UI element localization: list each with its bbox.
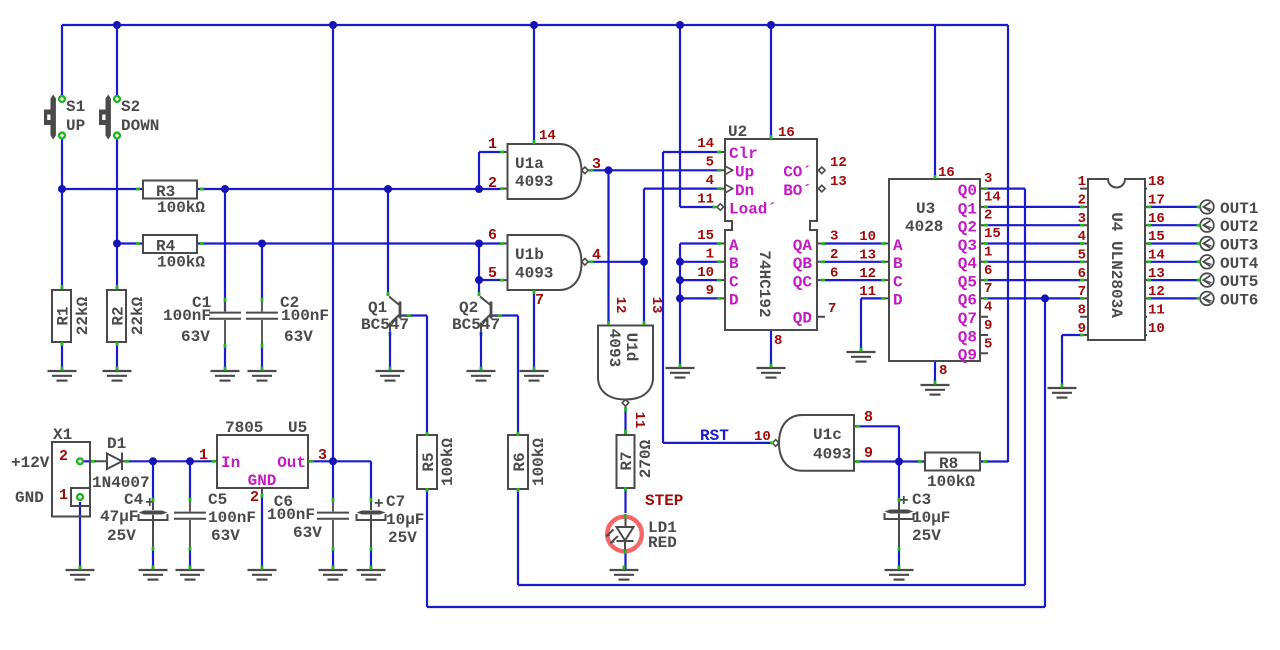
svg-text:22kΩ: 22kΩ [129,296,147,335]
svg-text:4093: 4093 [515,173,553,191]
svg-text:OUT1: OUT1 [1220,200,1258,218]
svg-text:RED: RED [648,534,677,552]
ground C4 [139,570,168,580]
ground C5 [176,570,205,580]
svg-text:5: 5 [488,265,497,282]
svg-text:270Ω: 270Ω [637,439,655,478]
svg-text:Clr: Clr [729,145,758,163]
svg-text:Q2: Q2 [958,219,977,237]
svg-text:2: 2 [984,208,992,224]
U2 pin names CO BO [783,164,812,201]
svg-text:+: + [374,495,384,513]
wire: S2 to R4/R2 node [117,139,143,290]
junction dots ABCD tie [676,258,684,303]
svg-text:R1: R1 [55,306,73,325]
wire: U2 Load stub [680,206,716,208]
svg-text:OUT2: OUT2 [1220,218,1258,236]
junction dot U5 out [329,457,337,465]
svg-text:1: 1 [984,245,992,261]
svg-text:5: 5 [984,337,992,353]
svg-text:OUT6: OUT6 [1220,292,1258,310]
IC U5 7805 regulator [211,435,314,497]
svg-text:D: D [893,292,903,310]
resistor R2 [107,285,126,346]
svg-text:4093: 4093 [515,265,553,283]
svg-text:C3: C3 [912,491,931,509]
svg-text:7: 7 [535,292,544,309]
svg-text:2: 2 [250,489,259,506]
svg-text:R5: R5 [420,452,438,471]
svg-text:16: 16 [778,125,795,141]
wire: U3 pin 8 to ground [934,361,936,385]
svg-text:Up: Up [735,164,754,182]
svg-text:11: 11 [697,192,714,208]
svg-text:18: 18 [1148,174,1165,190]
svg-text:100nF: 100nF [281,307,329,325]
U3 pin numbers [859,165,1001,379]
svg-text:Q3: Q3 [958,237,977,255]
svg-text:U1c: U1c [813,426,842,444]
svg-text:Q5: Q5 [958,274,977,292]
svg-text:Q8: Q8 [958,329,977,347]
svg-text:C7: C7 [386,493,405,511]
svg-text:2: 2 [59,448,68,465]
svg-text:25V: 25V [107,527,136,545]
junction dots input cap node [149,457,194,465]
svg-text:74HC192: 74HC192 [755,250,773,317]
wire: U4 pin 9 to ground [1062,335,1080,388]
capacitor C6 [317,501,349,550]
ground U5 [248,570,277,580]
wire: C4 to ground [152,550,154,570]
svg-text:6: 6 [984,263,992,279]
junction VCC rail dots [113,21,775,29]
svg-text:RST: RST [700,427,729,445]
wire: R2 to ground [116,342,118,371]
ground U2 ABCD [666,368,695,378]
wire: U5 GND pin to ground [261,497,263,570]
svg-text:100nF: 100nF [208,509,256,527]
svg-text:14: 14 [697,136,714,152]
svg-text:U1d: U1d [622,333,640,362]
junction dot Q6 net [1041,294,1049,302]
diode D1 [96,453,129,471]
svg-text:Q1: Q1 [958,201,977,219]
svg-text:QD: QD [793,310,812,328]
svg-text:14: 14 [539,128,556,144]
ground U4 pin9 [1048,388,1077,398]
svg-text:U2: U2 [728,123,747,141]
svg-text:GND: GND [15,489,44,507]
svg-text:Q6: Q6 [958,292,977,310]
svg-text:100kΩ: 100kΩ [530,438,548,486]
svg-text:100nF: 100nF [163,307,211,325]
wire: U2 pin 8 to ground [770,330,772,368]
svg-text:4: 4 [706,173,714,189]
node OUT5 [1200,273,1214,287]
svg-text:Q1: Q1 [368,299,387,317]
svg-text:C: C [729,274,739,292]
wire: U1b output to U2 Dn and U1d pin 13 [592,189,718,326]
svg-text:25V: 25V [388,529,417,547]
svg-text:13: 13 [648,297,664,314]
U1c pin numbers [754,409,873,462]
wire: X1 pin1 to ground [79,502,81,570]
svg-text:11: 11 [1148,303,1165,319]
svg-text:S2: S2 [121,98,140,116]
wire: VCC top rail [62,25,1008,462]
svg-text:4028: 4028 [905,218,943,236]
svg-text:DOWN: DOWN [121,117,159,135]
wire: C6 to ground [332,550,334,570]
svg-text:R2: R2 [110,306,128,325]
svg-text:B: B [893,255,903,273]
wire: Q6 net to U4 pin7 and R5 via bottom rail [401,298,1080,607]
svg-text:10: 10 [697,265,714,281]
svg-text:6: 6 [488,227,497,244]
svg-text:9: 9 [864,445,873,462]
svg-text:QC: QC [793,274,813,292]
U1a pin numbers [488,128,601,192]
svg-text:BO´: BO´ [783,182,812,200]
U2 pin numbers [697,125,847,349]
svg-text:1: 1 [706,247,714,263]
svg-text:3: 3 [318,447,327,464]
svg-text:X1: X1 [53,426,72,444]
ground U3 D input [847,352,876,362]
op-amp U1c NAND gate mirrored [772,415,860,471]
U1b pin numbers [488,227,601,309]
wire: net R3 right / U1a inputs / Q1 collector [197,152,500,311]
svg-text:Load´: Load´ [729,201,777,219]
ground C7 [357,570,386,580]
svg-text:63V: 63V [211,527,240,545]
svg-text:CO´: CO´ [783,164,812,182]
svg-text:OUT4: OUT4 [1220,255,1259,273]
svg-text:100kΩ: 100kΩ [439,438,457,486]
svg-text:BC547: BC547 [361,316,409,334]
ground R1 [48,371,77,381]
svg-text:1: 1 [488,136,497,153]
ground LED [610,570,639,580]
node OUT1 [1200,200,1214,214]
node OUT2 [1200,218,1214,232]
resistor R8 [918,453,987,471]
svg-text:QA: QA [793,237,813,255]
svg-text:100kΩ: 100kΩ [927,473,975,491]
svg-text:Q4: Q4 [958,255,978,273]
svg-text:63V: 63V [181,328,210,346]
svg-text:10: 10 [754,429,771,445]
X1 pin numbers [59,448,68,504]
U2 pin names QA-QD [793,237,813,328]
svg-text:QB: QB [793,255,813,273]
resistor R7 [617,430,635,491]
svg-text:1N4007: 1N4007 [92,474,150,492]
svg-text:11: 11 [859,284,876,300]
junction dots R3 net [58,185,483,193]
svg-text:16: 16 [938,165,955,181]
wire: U1b pin7 to ground [533,290,535,371]
svg-text:4093: 4093 [813,446,851,464]
svg-text:C: C [893,274,903,292]
wire: Q2 emitter to ground [480,332,482,371]
svg-text:13: 13 [859,248,876,264]
U5 pin names [221,454,306,490]
svg-text:+: + [899,492,909,510]
svg-text:7: 7 [828,301,836,317]
svg-text:OUT3: OUT3 [1220,237,1258,255]
ground R2 [103,371,132,381]
wire: U3 D to ground [861,298,881,352]
svg-text:10: 10 [859,229,876,245]
svg-text:U4 ULN2803A: U4 ULN2803A [1107,212,1125,318]
svg-text:22kΩ: 22kΩ [74,296,92,335]
svg-text:10µF: 10µF [386,511,424,529]
ground C1 [211,371,240,381]
svg-text:12: 12 [612,297,628,314]
svg-text:Q9: Q9 [958,347,977,365]
svg-text:8: 8 [939,363,947,379]
wire: C3 to ground [898,550,900,570]
svg-text:63V: 63V [284,328,313,346]
wire: Q1 emitter to ground [389,332,391,371]
wire: U4 outputs to OUT pads [1147,207,1200,299]
svg-text:5: 5 [706,155,714,171]
svg-text:GND: GND [248,472,277,490]
wire: Q1-Q5 nets to U4 inputs [988,207,1080,280]
wire: U2 QA QB QC to U3 A B C [825,244,881,281]
svg-text:7805: 7805 [225,419,263,437]
U3 pin names ABCD [893,237,903,310]
LED LD1 [606,514,642,554]
svg-text:BC547: BC547 [452,316,500,334]
svg-text:1: 1 [199,447,208,464]
svg-text:STEP: STEP [645,492,683,510]
svg-text:2: 2 [488,175,497,192]
node OUT3 [1200,237,1214,251]
svg-text:+: + [145,494,155,512]
wire: U1a output to U2 Up and U1d pin 12 [592,170,718,325]
capacitor C3 electrolytic [885,501,914,550]
wire: RST net U1c out to U2 Clr [663,152,772,443]
wire: U5 Out to VCC vertical and C6 C7 [314,461,371,499]
U4 pin numbers [1078,174,1165,337]
svg-text:C4: C4 [124,491,144,509]
ground C2 [248,371,277,381]
IC U3 4028 decoder [881,179,988,361]
wire: U1c pin8 pin9 R8 C3 node [860,426,1008,499]
wire: U1d output to R7 to LED to ground [624,409,626,570]
ground C3 [885,570,914,580]
op-amp U1a NAND gate [500,144,592,199]
svg-text:+12V: +12V [11,454,50,472]
svg-text:10: 10 [1148,321,1165,337]
svg-text:Q2: Q2 [459,299,478,317]
wire: C5 to ground [189,550,191,570]
wire: C7 to ground [370,550,372,570]
wire: C2 to ground [261,347,263,371]
transistor Q1 [387,292,411,336]
capacitor C4 electrolytic [139,501,168,550]
svg-text:15: 15 [697,228,714,244]
op-amp U1d NAND gate rotated [598,326,653,410]
svg-text:3: 3 [830,229,838,245]
svg-text:6: 6 [830,266,838,282]
svg-text:100nF: 100nF [267,506,315,524]
svg-text:Q7: Q7 [958,310,977,328]
wire: D1 cathode to U5 In with C4 C5 [128,461,211,499]
ground X1 pin1 [66,570,95,580]
svg-text:B: B [729,255,739,273]
svg-text:U5: U5 [288,419,307,437]
svg-text:D1: D1 [107,435,126,453]
U1d pin numbers [612,297,664,429]
junction dots R4 net [113,240,483,285]
resistor R1 [52,285,71,346]
svg-text:4: 4 [984,300,992,316]
svg-text:R6: R6 [511,452,529,471]
IC U2 74HC192 counter [717,139,825,330]
svg-text:47µF: 47µF [100,508,138,526]
svg-text:100kΩ: 100kΩ [157,254,205,272]
wire: U2 A B C D tie to ground [680,244,717,369]
svg-text:C5: C5 [208,491,227,509]
capacitor C5 [174,501,206,550]
node OUT6 [1200,292,1214,306]
node OUT4 [1200,255,1214,269]
svg-text:15: 15 [984,226,1001,242]
svg-text:A: A [729,237,739,255]
wire: Q0 net to R6 via bottom rail [492,189,1025,585]
U3 pin names Q0-Q9 [958,182,978,365]
capacitor C1 [209,301,241,347]
U2 pin names ABCD [729,237,739,310]
capacitor C7 electrolytic [357,501,386,550]
resistor R3 [136,181,204,199]
connector X1 [52,442,90,517]
svg-text:S1: S1 [66,98,85,116]
svg-text:25V: 25V [912,527,941,545]
IC U4 ULN2803A [1080,179,1147,340]
resistor R4 [136,235,204,253]
U2 pin names left [729,145,777,219]
switch S1 [44,95,66,140]
svg-text:U3: U3 [916,200,935,218]
resistor R6 [508,432,528,492]
svg-text:7: 7 [984,281,992,297]
ground U1b pin7 [520,371,549,381]
wire: R1 to ground [61,342,63,371]
svg-text:8: 8 [1078,303,1086,319]
svg-text:1: 1 [59,487,68,504]
svg-text:R8: R8 [939,455,958,473]
svg-text:11: 11 [631,412,647,429]
svg-text:8: 8 [864,409,873,426]
wire: X1 pin2 to D1 [84,460,96,462]
ground U2 pin8 [757,368,786,378]
ground U3 pin8 [921,385,950,395]
svg-text:2: 2 [830,247,838,263]
svg-text:3: 3 [984,171,992,187]
switch S2 [99,95,121,140]
svg-text:A: A [893,237,903,255]
svg-text:U1b: U1b [515,246,544,264]
svg-text:U1a: U1a [515,155,544,173]
svg-text:100kΩ: 100kΩ [157,199,205,217]
junction dot U1a output [605,166,613,174]
svg-text:D: D [729,292,739,310]
ground Q2 emitter [467,371,496,381]
transistor Q2 [478,292,502,336]
svg-text:In: In [221,454,240,472]
svg-text:OUT5: OUT5 [1220,273,1258,291]
svg-text:Q0: Q0 [958,182,977,200]
svg-text:63V: 63V [293,524,322,542]
ground C6 [319,570,348,580]
junction dot U1c input node [895,458,903,466]
svg-text:Out: Out [277,454,306,472]
wire: S1 to R3/R1 node [62,139,143,290]
svg-text:UP: UP [66,117,85,135]
svg-text:9: 9 [984,318,992,334]
ground Q1 emitter [376,371,405,381]
wire connection ticks [61,135,1201,570]
svg-text:Dn: Dn [735,182,754,200]
svg-text:4093: 4093 [605,329,623,367]
U5 pin numbers [199,447,327,506]
resistor R5 [417,432,437,492]
svg-text:10µF: 10µF [912,509,950,527]
svg-text:13: 13 [830,174,847,190]
svg-text:8: 8 [774,333,782,349]
wire: C1 to ground [224,347,226,371]
junction dot U1b output [640,258,648,266]
svg-text:12: 12 [830,155,847,171]
capacitor C2 [246,301,278,347]
svg-text:9: 9 [706,283,714,299]
svg-text:1: 1 [1078,174,1086,190]
svg-text:R7: R7 [618,451,636,470]
svg-text:14: 14 [984,190,1001,206]
op-amp U1b NAND gate [500,235,592,290]
wire: net R4 right / U1b inputs / Q2 collector [197,244,500,300]
svg-text:12: 12 [859,266,876,282]
